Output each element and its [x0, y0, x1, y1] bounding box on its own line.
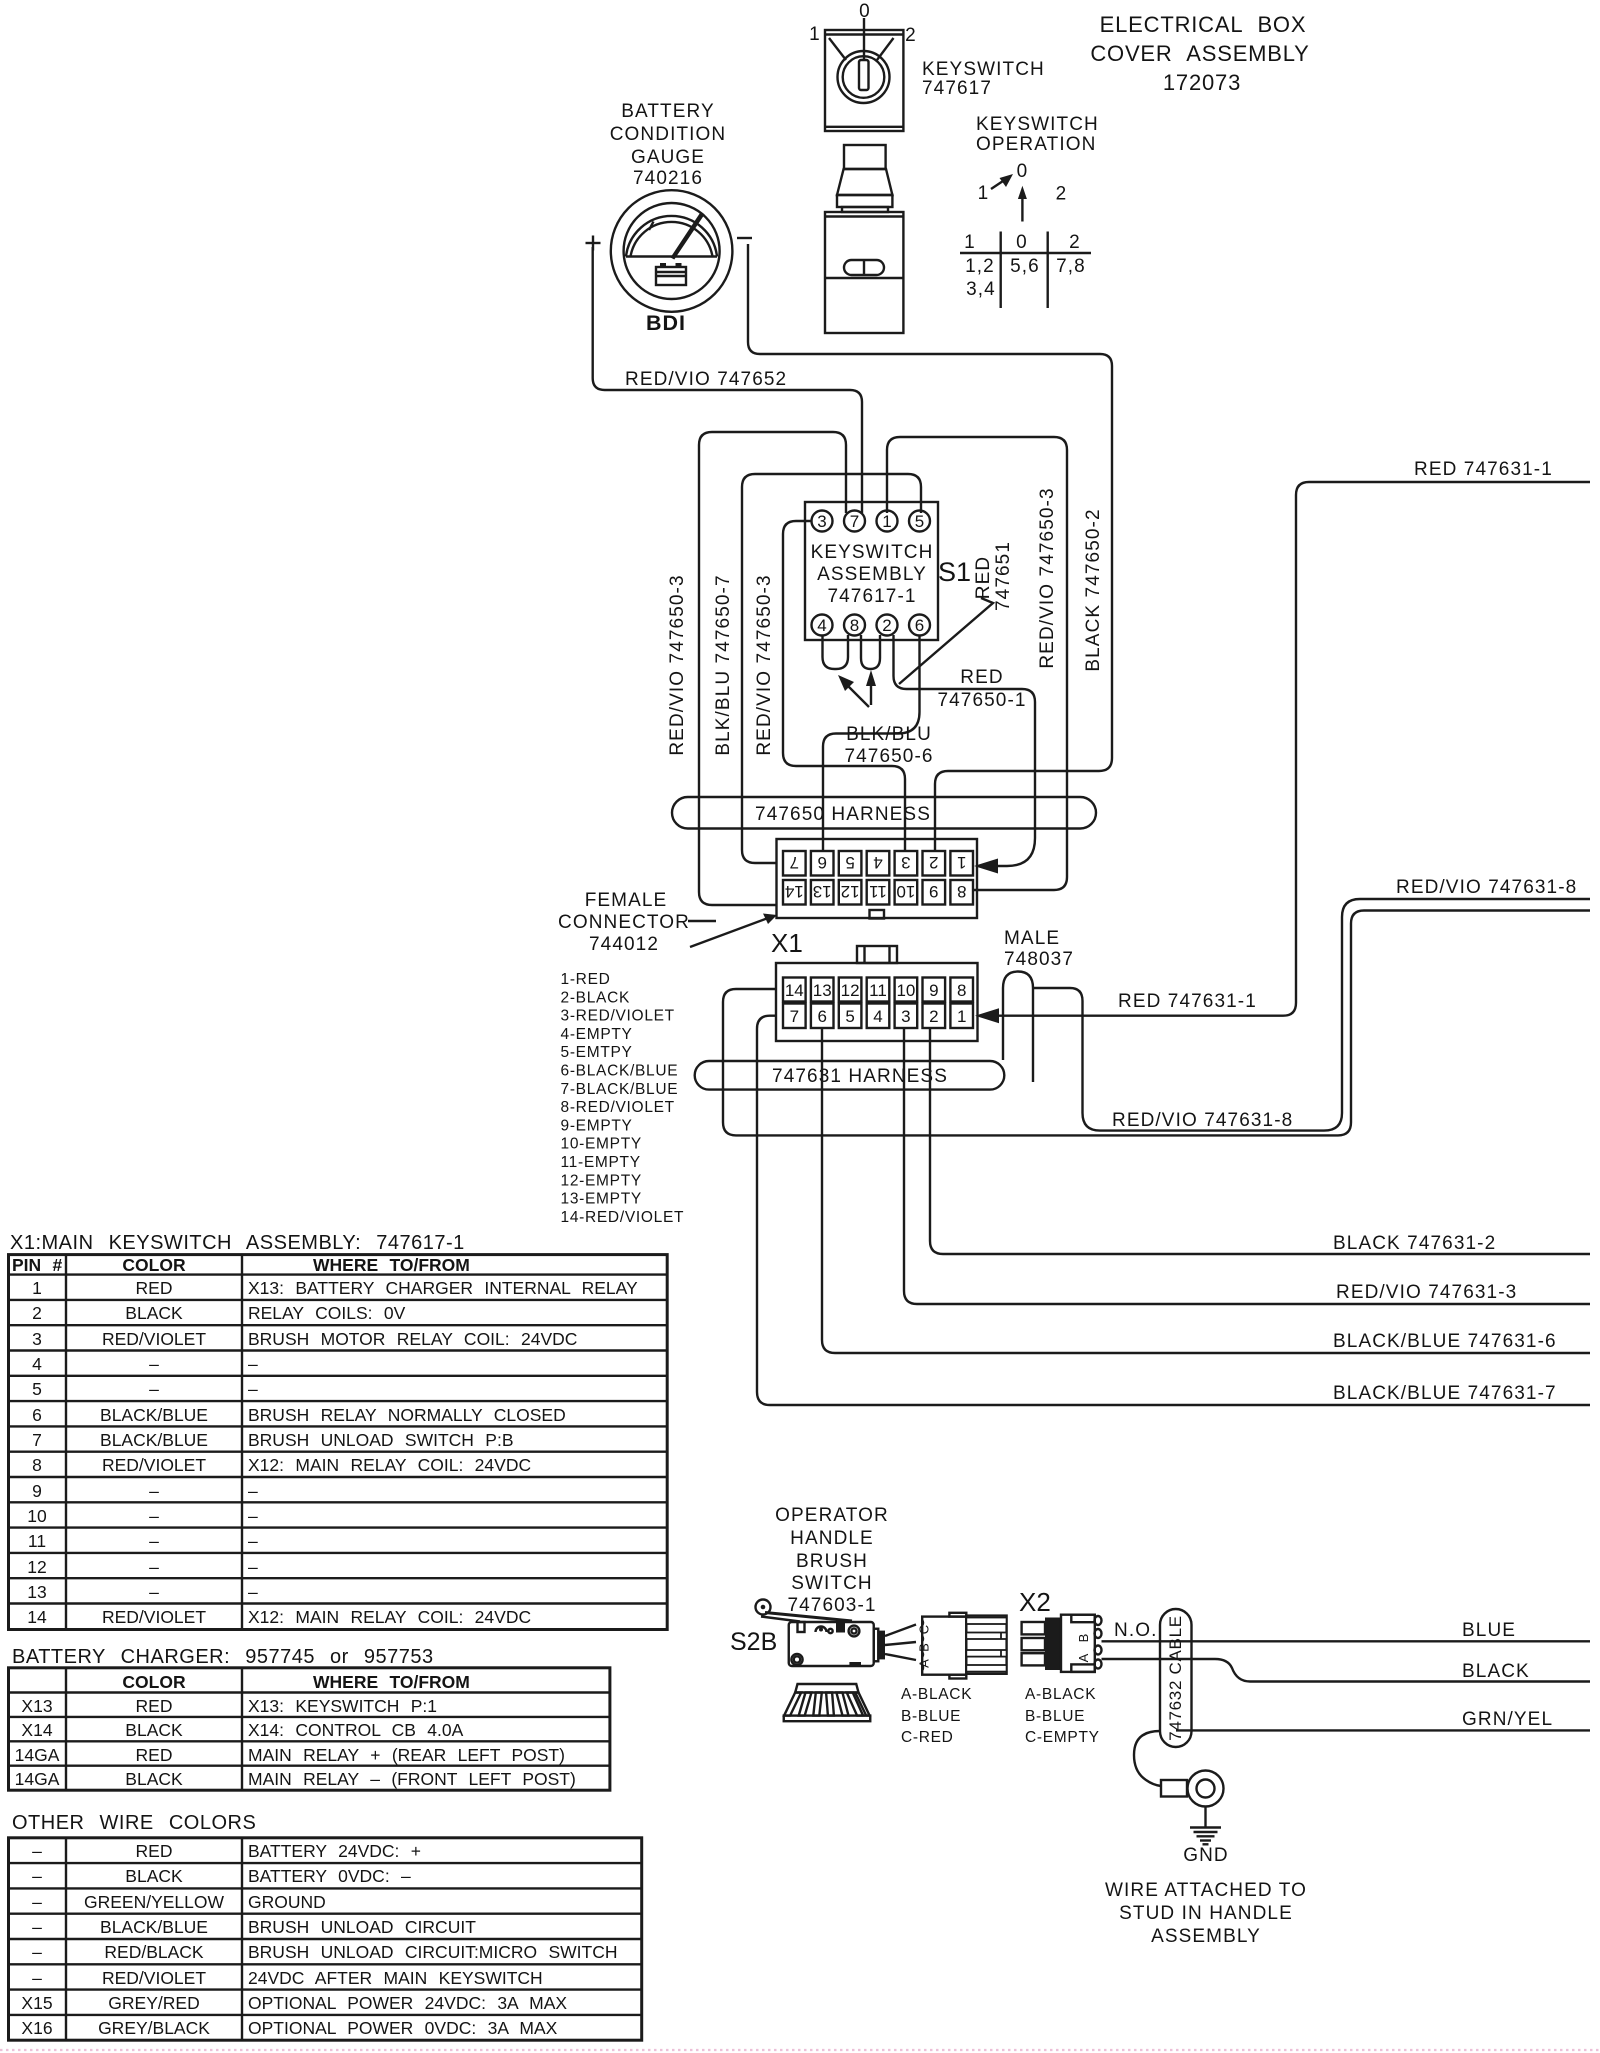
svg-text:10-EMPTY: 10-EMPTY [561, 1136, 642, 1153]
svg-text:5: 5 [845, 1007, 854, 1026]
svg-text:–: – [32, 1917, 42, 1937]
wire BLK/BLU 747650-6 from S1 pin 6 to female X1 pin 6 [823, 636, 920, 852]
svg-text:–: – [149, 1506, 159, 1526]
svg-text:747631 HARNESS: 747631 HARNESS [772, 1066, 948, 1087]
svg-text:RED: RED [136, 1696, 173, 1716]
svg-text:2: 2 [905, 25, 917, 46]
svg-text:RED/VIO 747631-8: RED/VIO 747631-8 [1112, 1110, 1293, 1131]
svg-text:RED/VIO 747652: RED/VIO 747652 [625, 369, 787, 390]
svg-text:BLACK: BLACK [1462, 1661, 1530, 1682]
svg-text:7: 7 [790, 853, 799, 872]
svg-text:747617-1: 747617-1 [827, 586, 916, 607]
svg-text:BRUSH: BRUSH [796, 1551, 868, 1572]
svg-text:6: 6 [915, 616, 924, 635]
svg-text:A: A [1076, 1653, 1091, 1662]
wire RED/VIO 747631-8 from male terminal (pin 8) [1034, 899, 1590, 1131]
svg-text:2: 2 [32, 1303, 42, 1323]
svg-text:S1: S1 [938, 557, 971, 587]
svg-text:6: 6 [817, 853, 826, 872]
wire BLACK 747631-2 from male X1 pin 2 [930, 1028, 1590, 1254]
svg-text:BLACK/BLUE: BLACK/BLUE [100, 1430, 208, 1450]
wire BLACK [1102, 1659, 1591, 1682]
svg-text:14: 14 [785, 981, 804, 1000]
svg-text:BRUSH RELAY NORMALLY CLOSED: BRUSH RELAY NORMALLY CLOSED [248, 1405, 566, 1425]
svg-text:RED/VIO 747650-3: RED/VIO 747650-3 [1037, 487, 1058, 668]
svg-text:SWITCH: SWITCH [791, 1573, 873, 1594]
wire BLACK 747650-2 from BDI - to female X1 pin 2 [748, 244, 1112, 852]
connector C-B-A pin list [901, 1686, 972, 1746]
svg-text:13-EMPTY: 13-EMPTY [561, 1191, 642, 1208]
svg-text:MAIN RELAY – (FRONT LEFT POST): MAIN RELAY – (FRONT LEFT POST) [248, 1769, 576, 1789]
svg-text:RED/VIOLET: RED/VIOLET [102, 1968, 206, 1988]
svg-text:747632 CABLE: 747632 CABLE [1166, 1615, 1185, 1741]
title ELECTRICAL BOX COVER ASSEMBLY 172073 [1090, 12, 1309, 95]
svg-text:8: 8 [957, 882, 966, 901]
svg-text:COVER ASSEMBLY: COVER ASSEMBLY [1090, 41, 1309, 66]
wire BLACK/BLUE 747631-6 from male X1 pin 6 [822, 1028, 1590, 1353]
svg-text:RELAY COILS: 0V: RELAY COILS: 0V [248, 1303, 406, 1323]
svg-text:1: 1 [964, 232, 976, 253]
svg-text:4: 4 [873, 853, 882, 872]
svg-text:12: 12 [27, 1557, 46, 1577]
svg-text:X13: KEYSWITCH P:1: X13: KEYSWITCH P:1 [248, 1696, 437, 1716]
svg-text:–: – [248, 1354, 258, 1374]
S1 pin 7 [844, 511, 865, 532]
svg-text:1: 1 [978, 183, 990, 204]
svg-text:WIRE ATTACHED TO: WIRE ATTACHED TO [1105, 1880, 1307, 1901]
svg-text:X13: X13 [21, 1696, 52, 1716]
svg-text:RED: RED [136, 1745, 173, 1765]
svg-text:X14: CONTROL CB 4.0A: X14: CONTROL CB 4.0A [248, 1720, 464, 1740]
svg-text:BLACK 747631-2: BLACK 747631-2 [1333, 1233, 1496, 1254]
svg-text:MAIN RELAY + (REAR LEFT POST): MAIN RELAY + (REAR LEFT POST) [248, 1745, 565, 1765]
svg-text:6: 6 [32, 1405, 42, 1425]
svg-text:–: – [32, 1892, 42, 1912]
svg-text:BDI: BDI [646, 311, 686, 335]
svg-text:7: 7 [850, 512, 859, 531]
connector C-B-A (switch side) [917, 1613, 1007, 1679]
table battery charger [9, 1668, 610, 1790]
svg-text:HANDLE: HANDLE [790, 1528, 874, 1549]
svg-text:X12: MAIN RELAY COIL: 24VDC: X12: MAIN RELAY COIL: 24VDC [248, 1607, 531, 1627]
svg-text:BATTERY 24VDC: +: BATTERY 24VDC: + [248, 1841, 421, 1861]
svg-text:–: – [149, 1557, 159, 1577]
svg-text:GREEN/YELLOW: GREEN/YELLOW [84, 1892, 225, 1912]
micro switch S2B body [756, 1600, 886, 1667]
svg-text:C: C [917, 1625, 932, 1634]
svg-text:11: 11 [28, 1531, 46, 1551]
table X1 main keyswitch assembly [9, 1255, 668, 1630]
svg-text:RED/VIO 747650-3: RED/VIO 747650-3 [754, 574, 775, 755]
svg-text:9: 9 [929, 981, 938, 1000]
svg-text:14-RED/VIOLET: 14-RED/VIOLET [561, 1209, 685, 1226]
svg-text:8: 8 [957, 981, 966, 1000]
svg-text:2: 2 [1069, 232, 1081, 253]
svg-text:X1: X1 [771, 928, 803, 958]
wire RED/VIO 747631-8 from male X1 pin 14 [723, 911, 1590, 1136]
svg-text:X14: X14 [21, 1720, 52, 1740]
svg-text:7,8: 7,8 [1056, 256, 1086, 277]
svg-text:BLACK/BLUE: BLACK/BLUE [100, 1917, 208, 1937]
747631 HARNESS oval [695, 1061, 1005, 1090]
svg-text:BATTERY 0VDC: –: BATTERY 0VDC: – [248, 1866, 411, 1886]
brush symbol [784, 1684, 871, 1721]
svg-text:MALE: MALE [1004, 928, 1060, 949]
wire label RED 747650-1 [937, 667, 1026, 711]
svg-text:BLK/BLU: BLK/BLU [846, 724, 932, 745]
svg-text:BLUE: BLUE [1462, 1620, 1516, 1641]
svg-text:BLK/BLU 747650-7: BLK/BLU 747650-7 [713, 574, 734, 755]
747650 HARNESS oval [672, 797, 1096, 829]
svg-text:5: 5 [32, 1379, 42, 1399]
wires micro switch to connector [885, 1625, 916, 1661]
keyswitch body side view [825, 145, 903, 333]
svg-text:–: – [149, 1379, 159, 1399]
svg-text:KEYSWITCH: KEYSWITCH [922, 59, 1045, 80]
svg-text:GRN/YEL: GRN/YEL [1462, 1709, 1553, 1730]
747632 cable oval [1160, 1609, 1192, 1747]
arrowhead into female pin 1 [974, 859, 998, 874]
svg-text:–: – [149, 1582, 159, 1602]
svg-text:S2B: S2B [730, 1628, 777, 1656]
wire RED 747631-1 from male X1 pin 1 to top right [996, 482, 1590, 1016]
svg-text:GROUND: GROUND [248, 1892, 326, 1912]
svg-text:3: 3 [901, 1007, 910, 1026]
ground pigtail wire [1134, 1731, 1161, 1786]
svg-text:3-RED/VIOLET: 3-RED/VIOLET [561, 1008, 675, 1025]
svg-text:8-RED/VIOLET: 8-RED/VIOLET [561, 1099, 675, 1116]
svg-text:4: 4 [873, 1007, 882, 1026]
svg-text:GREY/BLACK: GREY/BLACK [98, 2018, 210, 2038]
svg-text:COLOR: COLOR [122, 1255, 186, 1275]
svg-text:BLACK/BLUE: BLACK/BLUE [100, 1405, 208, 1425]
svg-text:BRUSH UNLOAD CIRCUIT:MICRO SWI: BRUSH UNLOAD CIRCUIT:MICRO SWITCH [248, 1942, 618, 1962]
leader arrows to jumpers [838, 670, 876, 707]
svg-text:–: – [248, 1379, 258, 1399]
svg-text:BLACK/BLUE 747631-6: BLACK/BLUE 747631-6 [1333, 1331, 1557, 1352]
wire BLK/BLU 747650-7 from female X1 pin 7 to S1 pin 5 [742, 474, 921, 863]
svg-text:RED/VIOLET: RED/VIOLET [102, 1607, 206, 1627]
wire RED/VIO 747650-3 from S1 pin 3 to female X1 pin 3 [783, 521, 905, 852]
ground symbol [1190, 1807, 1221, 1845]
page edge dotted line [0, 2049, 1600, 2051]
leader RED 747651 [899, 541, 1014, 684]
svg-text:BLACK 747650-2: BLACK 747650-2 [1083, 508, 1104, 671]
svg-text:747650-6: 747650-6 [844, 746, 933, 767]
svg-text:3: 3 [817, 512, 826, 531]
svg-text:–: – [32, 1841, 42, 1861]
svg-text:10: 10 [896, 882, 915, 901]
svg-text:8: 8 [32, 1455, 42, 1475]
svg-text:–: – [149, 1354, 159, 1374]
keyswitch 747617 top view [809, 1, 917, 131]
svg-text:OPERATION: OPERATION [976, 134, 1096, 155]
svg-text:X2: X2 [1019, 1587, 1051, 1617]
svg-text:BATTERY: BATTERY [621, 101, 715, 122]
connector X2 pin list [1025, 1686, 1100, 1746]
svg-text:OTHER WIRE COLORS: OTHER WIRE COLORS [12, 1812, 256, 1834]
svg-text:13: 13 [813, 882, 832, 901]
svg-text:9: 9 [32, 1481, 42, 1501]
svg-text:5: 5 [845, 853, 854, 872]
svg-text:5: 5 [915, 512, 924, 531]
female X1 pin list [561, 971, 685, 1226]
svg-text:X12: MAIN RELAY COIL: 24VDC: X12: MAIN RELAY COIL: 24VDC [248, 1455, 531, 1475]
svg-text:14GA: 14GA [15, 1769, 60, 1789]
svg-text:–: – [248, 1481, 258, 1501]
svg-text:BRUSH UNLOAD CIRCUIT: BRUSH UNLOAD CIRCUIT [248, 1917, 476, 1937]
wire label BLK/BLU 747650-6 [844, 724, 933, 767]
svg-text:BLACK: BLACK [125, 1303, 183, 1323]
operator handle brush switch label [775, 1505, 889, 1616]
jumper U S1 pins 8-2 [861, 635, 880, 669]
svg-text:6-BLACK/BLUE: 6-BLACK/BLUE [561, 1063, 679, 1080]
svg-text:13: 13 [813, 981, 832, 1000]
svg-text:N.O.: N.O. [1114, 1620, 1157, 1641]
male connector X1 748037 [776, 946, 978, 1041]
keyswitch operation table [960, 232, 1091, 309]
svg-text:14: 14 [785, 882, 804, 901]
wire attached note [1105, 1880, 1307, 1947]
svg-text:4-EMPTY: 4-EMPTY [561, 1026, 633, 1043]
svg-text:OPERATOR: OPERATOR [775, 1505, 889, 1526]
svg-text:A: A [917, 1659, 932, 1668]
svg-text:KEYSWITCH: KEYSWITCH [811, 542, 934, 563]
BDI minus terminal [737, 237, 752, 239]
svg-text:A-BLACK: A-BLACK [901, 1686, 972, 1703]
svg-text:GND: GND [1183, 1845, 1229, 1866]
svg-text:ASSEMBLY: ASSEMBLY [1151, 1926, 1261, 1947]
keyswitch 747617 label [922, 59, 1045, 99]
svg-text:11-EMPTY: 11-EMPTY [561, 1154, 641, 1171]
svg-text:7: 7 [790, 1007, 799, 1026]
svg-text:1: 1 [957, 853, 966, 872]
svg-text:12: 12 [841, 981, 860, 1000]
ring terminal [1161, 1771, 1224, 1807]
svg-text:RED/VIO 747631-3: RED/VIO 747631-3 [1336, 1282, 1517, 1303]
svg-text:3: 3 [32, 1329, 42, 1349]
BDI plus terminal [586, 236, 601, 251]
svg-text:C-RED: C-RED [901, 1729, 954, 1746]
svg-text:2: 2 [882, 616, 891, 635]
battery condition gauge label [610, 101, 727, 189]
svg-text:RED/VIO 747650-3: RED/VIO 747650-3 [667, 574, 688, 755]
wire RED 747650-1 from S1 pin 2 to female X1 pin 1 [894, 635, 1036, 866]
female connector X1 744012 [777, 839, 978, 919]
svg-text:BLACK: BLACK [125, 1720, 183, 1740]
svg-text:KEYSWITCH: KEYSWITCH [976, 114, 1099, 135]
svg-text:RED 747631-1: RED 747631-1 [1118, 991, 1257, 1012]
svg-text:RED: RED [136, 1841, 173, 1861]
wire BLACK/BLUE 747631-7 from male X1 pin 7 [757, 1016, 1590, 1405]
svg-text:14GA: 14GA [15, 1745, 60, 1765]
svg-text:B: B [917, 1643, 932, 1652]
battery condition gauge BDI [611, 190, 733, 312]
svg-text:12-EMPTY: 12-EMPTY [561, 1172, 642, 1189]
svg-text:B: B [1076, 1634, 1091, 1643]
svg-text:COLOR: COLOR [122, 1672, 186, 1692]
svg-text:2-BLACK: 2-BLACK [561, 989, 631, 1006]
svg-text:5-EMTPY: 5-EMTPY [561, 1044, 633, 1061]
svg-text:7-BLACK/BLUE: 7-BLACK/BLUE [561, 1081, 679, 1098]
svg-text:RED/VIOLET: RED/VIOLET [102, 1455, 206, 1475]
svg-text:24VDC AFTER MAIN KEYSWITCH: 24VDC AFTER MAIN KEYSWITCH [248, 1968, 543, 1988]
svg-text:B-BLUE: B-BLUE [1025, 1708, 1085, 1725]
svg-text:0: 0 [859, 1, 871, 22]
svg-text:7: 7 [32, 1430, 42, 1450]
svg-text:2: 2 [929, 1007, 938, 1026]
svg-text:–: – [248, 1557, 258, 1577]
svg-text:–: – [248, 1582, 258, 1602]
wire RED/VIO 747652 from BDI + to S1 pin 7 [593, 247, 862, 513]
svg-text:747603-1: 747603-1 [787, 1595, 876, 1616]
svg-text:C-EMPTY: C-EMPTY [1025, 1729, 1100, 1746]
svg-text:RED/VIOLET: RED/VIOLET [102, 1329, 206, 1349]
svg-text:13: 13 [27, 1582, 46, 1602]
svg-text:1,2: 1,2 [965, 256, 995, 277]
svg-text:CONNECTOR: CONNECTOR [558, 912, 690, 933]
svg-text:–: – [32, 1968, 42, 1988]
svg-text:747650 HARNESS: 747650 HARNESS [755, 804, 931, 825]
svg-text:GAUGE: GAUGE [631, 147, 705, 168]
keyswitch operation position diagram [978, 161, 1068, 222]
S1 pin 6 [909, 615, 930, 636]
svg-text:3,4: 3,4 [966, 279, 996, 300]
svg-text:–: – [149, 1531, 159, 1551]
svg-text:WHERE TO/FROM: WHERE TO/FROM [313, 1672, 470, 1692]
svg-text:BLACK: BLACK [125, 1769, 183, 1789]
svg-text:–: – [248, 1506, 258, 1526]
female connector label [558, 890, 777, 955]
svg-text:1-RED: 1-RED [561, 971, 611, 988]
svg-text:11: 11 [869, 981, 887, 1000]
S1 pin 1 [877, 511, 898, 532]
svg-text:1: 1 [957, 1007, 966, 1026]
svg-text:172073: 172073 [1163, 70, 1241, 95]
S1 pin 2 [877, 615, 898, 636]
svg-text:8: 8 [850, 616, 859, 635]
connector X2 [1022, 1615, 1102, 1672]
svg-text:9-EMPTY: 9-EMPTY [561, 1117, 633, 1134]
svg-text:747617: 747617 [922, 78, 992, 99]
svg-text:740216: 740216 [633, 168, 703, 189]
svg-text:0: 0 [1017, 161, 1029, 182]
svg-text:CONDITION: CONDITION [610, 124, 727, 145]
wire GRN/YEL [1176, 1729, 1590, 1731]
S1 pin 5 [909, 511, 930, 532]
svg-text:4: 4 [32, 1354, 42, 1374]
svg-text:X16: X16 [21, 2018, 52, 2038]
svg-text:BATTERY CHARGER: 957745 or: BATTERY CHARGER: 957745 or 957753 [12, 1646, 434, 1668]
arrowhead into male pin 1 [975, 1008, 999, 1023]
svg-text:–: – [248, 1531, 258, 1551]
svg-text:1: 1 [32, 1278, 42, 1298]
male terminal 748037 U shape [1003, 972, 1033, 1083]
svg-text:B-BLUE: B-BLUE [901, 1708, 961, 1725]
svg-text:6: 6 [817, 1007, 826, 1026]
male 748037 label [1004, 928, 1074, 970]
svg-text:1: 1 [882, 512, 891, 531]
svg-text:BRUSH MOTOR RELAY COIL: 24VDC: BRUSH MOTOR RELAY COIL: 24VDC [248, 1329, 577, 1349]
svg-text:BLACK/BLUE 747631-7: BLACK/BLUE 747631-7 [1333, 1383, 1557, 1404]
svg-text:10: 10 [27, 1506, 47, 1526]
jumper U S1 pins 4-8 [823, 635, 849, 669]
svg-text:12: 12 [841, 882, 860, 901]
svg-text:10: 10 [896, 981, 915, 1000]
svg-text:STUD IN HANDLE: STUD IN HANDLE [1119, 1903, 1293, 1924]
svg-text:9: 9 [929, 882, 938, 901]
keyswitch assembly S1 box [805, 502, 938, 640]
wire RED/VIO 747631-3 from male X1 pin 3 [904, 1028, 1590, 1304]
svg-text:GREY/RED: GREY/RED [108, 1993, 199, 2013]
svg-text:RED 747631-1: RED 747631-1 [1414, 459, 1553, 480]
svg-text:5,6: 5,6 [1010, 256, 1040, 277]
svg-text:11: 11 [869, 882, 887, 901]
svg-text:RED: RED [136, 1278, 173, 1298]
keyswitch operation label [976, 114, 1099, 155]
S1 pin 4 [812, 615, 833, 636]
svg-text:RED: RED [960, 667, 1003, 688]
svg-text:0: 0 [1016, 232, 1028, 253]
S1 pin 8 [844, 615, 865, 636]
svg-text:WHERE TO/FROM: WHERE TO/FROM [313, 1255, 470, 1275]
svg-text:2: 2 [929, 853, 938, 872]
wire RED/VIO 747650-3 from female X1 pin 14 to S1 pin 7 [699, 432, 846, 905]
wire BLUE [1102, 1640, 1591, 1642]
svg-text:–: – [149, 1481, 159, 1501]
svg-text:747651: 747651 [993, 541, 1014, 611]
svg-text:747650-1: 747650-1 [937, 690, 1026, 711]
svg-text:1: 1 [809, 24, 821, 45]
svg-text:X13: BATTERY CHARGER INTERNAL: X13: BATTERY CHARGER INTERNAL RELAY [248, 1278, 638, 1298]
svg-text:BRUSH UNLOAD SWITCH P:B: BRUSH UNLOAD SWITCH P:B [248, 1430, 514, 1450]
svg-text:X15: X15 [21, 1993, 52, 2013]
svg-text:PIN #: PIN # [12, 1255, 63, 1275]
svg-text:3: 3 [901, 853, 910, 872]
svg-text:BLACK: BLACK [125, 1866, 183, 1886]
S1 pin 3 [812, 511, 833, 532]
wire RED/VIO 747650-3 from S1 pin 1 to female X1 pin 8 [887, 437, 1067, 890]
svg-text:OPTIONAL POWER 0VDC: 3A MAX: OPTIONAL POWER 0VDC: 3A MAX [248, 2018, 558, 2038]
svg-text:–: – [32, 1866, 42, 1886]
svg-text:744012: 744012 [589, 934, 659, 955]
svg-text:748037: 748037 [1004, 949, 1074, 970]
svg-text:X1:MAIN KEYSWITCH ASSEMBLY:: X1:MAIN KEYSWITCH ASSEMBLY: 747617-1 [10, 1232, 465, 1254]
svg-text:4: 4 [817, 616, 826, 635]
svg-text:ELECTRICAL BOX: ELECTRICAL BOX [1100, 12, 1307, 37]
svg-text:2: 2 [1056, 184, 1068, 205]
svg-text:ASSEMBLY: ASSEMBLY [817, 564, 927, 585]
svg-text:OPTIONAL POWER 24VDC: 3A MAX: OPTIONAL POWER 24VDC: 3A MAX [248, 1993, 567, 2013]
svg-text:RED: RED [973, 556, 994, 599]
svg-text:RED/BLACK: RED/BLACK [104, 1942, 204, 1962]
svg-text:FEMALE: FEMALE [585, 890, 668, 911]
svg-text:–: – [32, 1942, 42, 1962]
table other wire colors [9, 1838, 642, 2040]
svg-text:14: 14 [27, 1607, 47, 1627]
svg-text:RED/VIO 747631-8: RED/VIO 747631-8 [1396, 877, 1577, 898]
svg-text:A-BLACK: A-BLACK [1025, 1686, 1096, 1703]
